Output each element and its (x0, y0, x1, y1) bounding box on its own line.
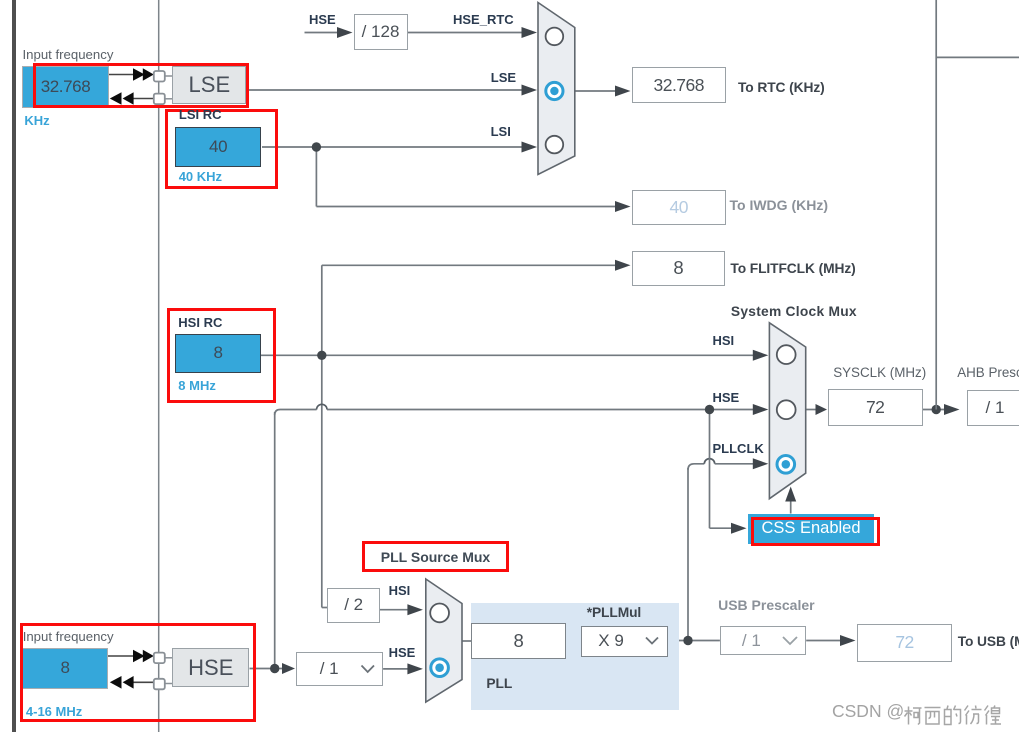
HSI RC blue box 8 (175, 334, 261, 373)
divider /128 box (354, 14, 408, 50)
label *PLLMul (587, 606, 641, 620)
radio PLL HSE selected (431, 659, 449, 677)
label 8 MHz (178, 379, 216, 392)
dropdown PLLMul X9 (581, 626, 668, 657)
label PLLCLK (713, 442, 764, 455)
label HSE mux2 (713, 391, 740, 404)
label AHB Presc (957, 366, 1019, 379)
wire LSE to RTC mux (247, 89, 524, 91)
label 4-16 MHz (26, 705, 82, 718)
dropdown HSE prescaler /1 (296, 652, 383, 686)
CSS Enabled blue box (748, 514, 874, 544)
node SYSCLK junction (932, 405, 941, 414)
watermark glyph de (945, 706, 961, 725)
wire LSI to RTC mux (262, 146, 523, 148)
port square LSE top (154, 71, 165, 82)
label To IWDG (KHz) (730, 198, 829, 212)
label To RTC (KHz) (738, 81, 825, 95)
wire SYSCLK to AHB prescaler (923, 409, 946, 411)
radio HSI unselected (777, 345, 796, 364)
wire HSE osc bidirectional top (108, 655, 136, 657)
wire HSE osc bidirectional bottom (128, 681, 154, 683)
output box SYSCLK 72 (828, 389, 923, 426)
radio PLL HSI unselected (430, 604, 449, 623)
chevron HSE /1 (362, 666, 375, 673)
wire SYSCLK top branch (936, 56, 1019, 58)
label To FLITFCLK (MHz) (730, 262, 855, 276)
watermark CSDN (832, 703, 904, 721)
wire HSE osc to /1 (250, 668, 285, 670)
label HSE top (309, 13, 336, 26)
wire RTC mux output to RTC box (575, 90, 620, 92)
node LSI junction (312, 142, 321, 151)
wire /2 to PLL source mux HSI (380, 609, 409, 611)
port square LSE bottom (154, 94, 165, 105)
node PLL output junction (683, 636, 692, 645)
node HSE junction at mux (705, 405, 714, 414)
mux System Clock Mux (769, 323, 805, 499)
wire /128 to RTC mux HSE_RTC input (408, 32, 524, 34)
wire HSE down to CSS (709, 410, 711, 529)
red annotation rect LSE (33, 63, 249, 108)
LSI RC blue box 40 (175, 127, 261, 166)
wire /1 to PLL source mux HSE (383, 668, 409, 670)
wire system clock mux to SYSCLK box (806, 409, 818, 411)
radio LSE selected (546, 82, 563, 99)
red annotation box PLL Source Mux (362, 541, 509, 572)
PLL region (471, 603, 679, 711)
radio HSE_RTC unselected (546, 28, 564, 46)
wire HSI RC to system clock mux (261, 354, 754, 356)
wire LSE osc bidirectional top (109, 74, 136, 76)
port square HSE top (154, 653, 165, 664)
label HSI RC (178, 316, 222, 329)
label USB Prescaler (718, 598, 815, 612)
wire PLLCLK to system clock mux with hop (688, 464, 704, 470)
wire X9 to USB prescaler (668, 640, 720, 642)
label LSE (491, 71, 516, 84)
divider /2 box (327, 588, 380, 623)
mux PLL Source Mux (426, 579, 462, 702)
wire LSI branch down to IWDG (315, 147, 317, 207)
radio LSI unselected (546, 136, 564, 154)
label SYSCLK (MHz) (833, 366, 926, 379)
red annotation rect LSI RC (165, 109, 279, 189)
label Input frequency bottom (23, 630, 114, 643)
output box To RTC (632, 67, 726, 103)
watermark glyph xi (925, 708, 941, 725)
wire PLLCLK vertical (687, 468, 689, 641)
label HSE_RTC (453, 13, 514, 26)
input frequency blue box 8 (22, 648, 108, 689)
dropdown USB prescaler /1 (720, 626, 806, 655)
output box To IWDG (632, 190, 726, 225)
wire HSE vertical trunk (274, 412, 276, 669)
label 40 KHz (179, 170, 222, 183)
wire SYSCLK vertical up (935, 0, 937, 410)
oscillator box HSE (172, 648, 249, 687)
chip boundary vertical line (158, 0, 160, 732)
red annotation rect HSI RC (167, 308, 276, 402)
label HSI mux2 (713, 334, 735, 347)
PLL input box 8 (471, 623, 566, 659)
radio HSE unselected (777, 400, 796, 419)
node HSE osc junction (270, 664, 279, 673)
wire PLL source mux to PLL input (462, 640, 471, 642)
radio PLLCLK selected (777, 456, 795, 474)
AHB prescaler box (967, 390, 1019, 426)
port square HSE bottom (154, 679, 165, 690)
label To USB (MHz) (958, 635, 1019, 649)
label LSI RC (179, 108, 222, 121)
node HSI junction (317, 351, 326, 360)
label HSI pll mux (389, 584, 411, 597)
label HSE pll mux (389, 646, 416, 659)
wire HSI to FLITFCLK (322, 264, 616, 266)
label PLL (486, 677, 512, 691)
wire USB prescaler to USB box (806, 640, 842, 642)
chevron X9 (646, 638, 658, 644)
wire LSE osc bidirectional bottom (128, 98, 154, 100)
red annotation rect HSE (20, 623, 256, 722)
watermark glyph ke (905, 707, 922, 725)
label LSI (491, 125, 511, 138)
output box To USB 72 (857, 624, 952, 662)
wire HSE to system clock mux with hop (275, 410, 317, 416)
watermark glyph fang (965, 706, 982, 725)
label KHz (24, 114, 49, 127)
wire HSE label to /128 (305, 32, 340, 34)
wire PLL 8 to X9 (566, 640, 581, 642)
watermark glyph huang (985, 706, 1002, 725)
label System Clock Mux (731, 305, 857, 319)
mux RTC clock mux (538, 3, 575, 175)
wire CSS up arrow into mux (790, 496, 792, 514)
red annotation rect CSS (751, 517, 880, 546)
input frequency blue box 32.768 (22, 66, 109, 108)
output box To FLITFCLK (632, 251, 726, 286)
label Input frequency top (23, 48, 114, 61)
left dark border bar (12, 0, 16, 732)
wire HSI vertical trunk (321, 265, 323, 607)
oscillator box LSE (172, 66, 246, 104)
chevron USB prescaler (783, 637, 797, 644)
